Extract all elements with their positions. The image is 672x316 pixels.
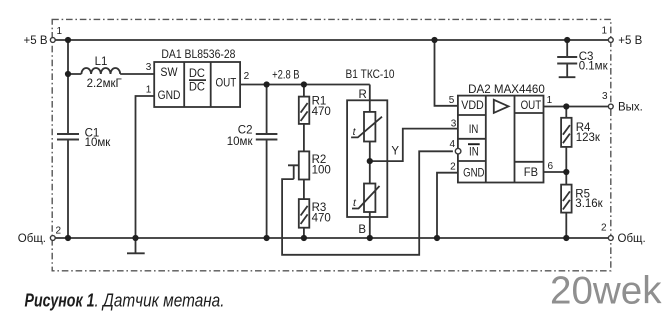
svg-text:OUT: OUT [216, 78, 237, 90]
ground symbol under C3 [559, 76, 576, 78]
wire thermistor1 to Y node [369, 142, 371, 184]
svg-text:6: 6 [548, 161, 554, 172]
inductor L1 [81, 56, 122, 90]
wire +5V to DA2 pin 5 VDD [435, 40, 458, 106]
svg-text:B1 ТКС-10: B1 ТКС-10 [346, 69, 395, 81]
svg-text:2.2мкГ: 2.2мкГ [87, 78, 123, 90]
terminal 3 output [602, 91, 643, 114]
resistor R1 470 [299, 96, 331, 124]
svg-text:+5 В: +5 В [618, 35, 642, 47]
svg-text:GND: GND [463, 167, 484, 179]
svg-text:t: t [353, 197, 357, 209]
svg-text:SW: SW [160, 67, 177, 79]
svg-text:123к: 123к [576, 132, 601, 144]
node junction C3 branch [564, 37, 570, 43]
resistor R4 123k [561, 118, 601, 147]
svg-text:2: 2 [450, 161, 456, 172]
capacitor C2 [227, 124, 278, 148]
node junction R1 at +2.8V [301, 81, 307, 87]
svg-text:+2.8 В: +2.8 В [272, 70, 300, 82]
thermistor 1 (upper) [351, 112, 382, 142]
node junction FB R5 [563, 169, 569, 175]
wire R4/R5 feedback branch [565, 107, 567, 239]
svg-text:100: 100 [312, 165, 331, 177]
terminal 2 common left [18, 226, 62, 246]
node junction C2 at +2.8V [264, 81, 270, 87]
node junction R5 at rail [563, 235, 569, 241]
svg-text:DC: DC [189, 82, 205, 94]
node Y junction [367, 158, 373, 164]
svg-text:Y: Y [391, 146, 399, 158]
node junction top-left [65, 37, 71, 43]
svg-text:3: 3 [602, 91, 608, 102]
svg-text:10мк: 10мк [85, 137, 112, 149]
svg-text:1: 1 [547, 95, 553, 106]
wire R1-R2-R3 divider branch [303, 85, 305, 239]
svg-text:1: 1 [146, 85, 152, 96]
terminal 1 +5V left [24, 26, 63, 47]
node junction VDD branch [431, 37, 437, 43]
svg-text:FB: FB [524, 167, 539, 179]
wire DA2 pin 2 GND to common rail [437, 173, 458, 238]
svg-text:Общ.: Общ. [618, 233, 646, 245]
wire common ground rail [53, 237, 611, 239]
svg-text:2: 2 [244, 71, 250, 82]
node junction R3 at rail [301, 235, 307, 241]
svg-text:t: t [353, 126, 357, 138]
resistor R3 470 [299, 199, 331, 228]
svg-text:DA1 BL8536-28: DA1 BL8536-28 [161, 49, 235, 61]
resistor R5 3.16k [561, 185, 604, 213]
svg-text:2: 2 [56, 226, 62, 237]
wire L1 to DA1 pin 3 [68, 73, 154, 75]
svg-text:0.1мк: 0.1мк [579, 61, 609, 73]
svg-text:B: B [358, 224, 366, 236]
capacitor C3 0.1mk [557, 51, 608, 73]
svg-text:GND: GND [158, 90, 181, 102]
svg-text:DA2 MAX4460: DA2 MAX4460 [468, 84, 545, 96]
node junction B at rail [367, 235, 373, 241]
svg-text:3.16к: 3.16к [575, 198, 603, 210]
terminal 2 common right [601, 223, 646, 245]
wire sensor B terminal to common rail [369, 212, 371, 238]
capacitor C1 [57, 128, 111, 150]
wire DA1 pin 1 GND to ground rail [136, 96, 155, 238]
svg-text:3: 3 [146, 62, 152, 73]
svg-text:5: 5 [449, 95, 455, 106]
node junction ground symbol at rail [132, 235, 138, 241]
svg-text:VDD: VDD [461, 100, 484, 112]
node junction DA2 GND at rail [434, 235, 440, 241]
svg-text:20wek: 20wek [550, 270, 662, 313]
svg-text:Вых.: Вых. [618, 102, 643, 114]
svg-text:470: 470 [312, 212, 331, 224]
svg-text:1: 1 [601, 26, 607, 37]
svg-text:R: R [359, 89, 367, 101]
wire +5V top rail [53, 39, 611, 41]
wire DA2 OUT to output terminal [544, 106, 611, 108]
svg-text:3: 3 [451, 119, 457, 130]
svg-text:IN: IN [469, 124, 479, 136]
IC DA1 BL8536-28 DC-DC converter [154, 49, 240, 107]
svg-text:Рисунок 1: Рисунок 1 [25, 290, 95, 310]
ground symbol on common rail [127, 238, 145, 253]
inversion circle DA2 pin 4 [455, 148, 461, 154]
svg-text:+5 В: +5 В [24, 35, 48, 47]
svg-text:IN: IN [469, 147, 479, 159]
wiper tap of R2 to DA2 pin 4 [282, 151, 453, 255]
node junction C1 at rail [65, 235, 71, 241]
terminal 1 +5V right [601, 26, 642, 48]
wire left vertical branch (C1 leg) [67, 40, 69, 238]
svg-text:10мк: 10мк [227, 136, 254, 148]
node junction output R4 [563, 103, 569, 109]
trimmer resistor R2 100 [299, 151, 331, 179]
wire DA2 FB pin 6 [544, 171, 567, 173]
op-amp DA2 MAX4460 [458, 84, 545, 182]
svg-text:4: 4 [449, 139, 455, 150]
wire Y node to DA2 pin 3 [370, 129, 458, 162]
svg-text:2: 2 [601, 223, 607, 234]
svg-text:DC: DC [189, 68, 205, 80]
svg-text:OUT: OUT [521, 100, 542, 112]
sensor B1 TKC-10 [346, 69, 400, 236]
svg-text:1: 1 [57, 26, 63, 37]
svg-text:L1: L1 [95, 56, 108, 68]
wire DA1 OUT +2.8V line [240, 84, 370, 86]
svg-text:. Датчик метана.: . Датчик метана. [95, 290, 225, 310]
svg-text:470: 470 [312, 106, 331, 118]
svg-text:C2: C2 [238, 124, 253, 136]
node junction C2 at rail [264, 235, 270, 241]
wire C3 branch [566, 40, 568, 77]
node junction L1 tap [65, 71, 71, 77]
svg-text:Общ.: Общ. [18, 233, 46, 245]
thermistor 2 (lower) [352, 184, 380, 213]
wire sensor R terminal from +2.8V [369, 85, 371, 112]
wire C2 branch [266, 85, 268, 239]
